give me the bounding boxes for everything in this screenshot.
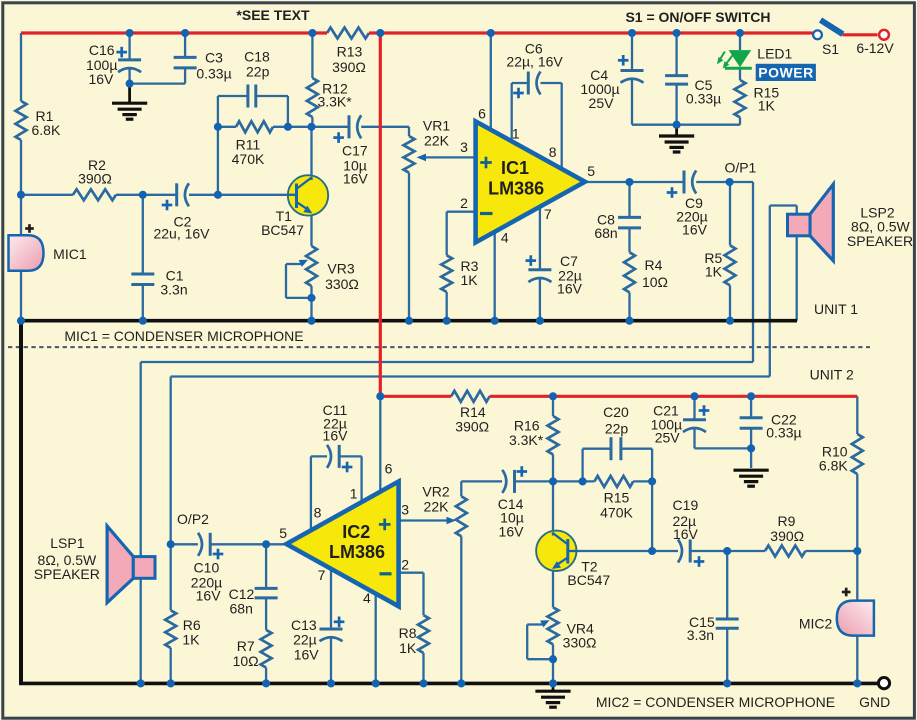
red supply rail unit2 left segment — [380, 395, 451, 398]
svg-text:1: 1 — [350, 486, 358, 502]
wire: R3 bottom to ground rail — [446, 292, 448, 321]
capacitor C15 3.3n — [716, 618, 739, 621]
wire: C22 bottom lead — [750, 428, 752, 448]
svg-text:VR1: VR1 — [423, 118, 450, 134]
capacitor C22 0.33u — [740, 416, 763, 419]
wire: C21 bottom lead — [693, 428, 695, 448]
wire: C20 right lead — [621, 448, 652, 450]
potentiometer VR1 22K body — [404, 136, 415, 173]
ground symbol under C16 — [128, 84, 131, 102]
wire: T2 emitter down to VR4 — [552, 568, 554, 607]
wire: C17 to VR1 corner — [361, 126, 409, 128]
wire: C2 to base node C — [189, 194, 218, 196]
wire: MIC2 top lead — [856, 551, 858, 602]
svg-text:UNIT 1: UNIT 1 — [814, 301, 858, 317]
wire: C18 right lead — [256, 95, 288, 97]
wire: R11 right to collector node — [273, 126, 312, 128]
svg-text:1K: 1K — [758, 97, 776, 113]
svg-text:16V: 16V — [682, 222, 708, 238]
svg-text:BC547: BC547 — [567, 572, 610, 588]
resistor R4 10ohm — [624, 252, 635, 292]
wire: C20 loop right vertical — [651, 449, 653, 482]
wire: VR3 bottom to junction — [310, 286, 312, 298]
wire: feedback node down to base node — [651, 481, 653, 551]
svg-text:O/P1: O/P1 — [724, 160, 756, 176]
wire: C6 to pin8 corner — [541, 82, 562, 84]
plus mark C9 — [667, 191, 678, 194]
wire: T2 base wire to base node — [571, 550, 653, 552]
svg-text:0.33µ: 0.33µ — [196, 66, 231, 82]
wire: IC2 pin1 up — [360, 456, 362, 502]
svg-text:470K: 470K — [600, 505, 633, 521]
svg-text:2: 2 — [401, 556, 409, 572]
svg-text:7: 7 — [318, 567, 326, 583]
wire: IC1 pin4 down to ground rail — [494, 232, 496, 321]
svg-text:22K: 22K — [424, 133, 450, 149]
plus mark inside IC1 — [480, 161, 492, 164]
wire: C9 to O/P1 node — [696, 181, 729, 183]
wire: LSP1 bottom to ground rail — [140, 575, 142, 683]
svg-text:1K: 1K — [705, 264, 723, 280]
svg-text:R4: R4 — [645, 257, 663, 273]
wire: C21 top lead from rail — [693, 396, 695, 420]
svg-text:LM386: LM386 — [488, 179, 544, 199]
svg-text:390Ω: 390Ω — [332, 59, 366, 75]
capacitor C17 10u — [348, 115, 351, 138]
wire: VR1 bottom to ground rail — [408, 173, 410, 321]
red supply rail top left segment — [21, 31, 327, 34]
wire: C3 bottom lead — [184, 68, 186, 84]
wire: R10 bottom to MIC2 node — [856, 474, 858, 551]
plus mark MIC1 — [25, 227, 34, 230]
svg-text:16V: 16V — [294, 646, 320, 662]
wire: C18 left lead — [218, 95, 248, 97]
resistor R12 3.3K — [307, 78, 318, 117]
svg-text:3: 3 — [460, 139, 468, 155]
junction dot C16-C3 ground node — [126, 80, 134, 88]
wire: feedback left vertical node C up to C18 — [217, 96, 219, 195]
wire: LED1 cathode to R15 — [739, 68, 741, 80]
svg-text:MIC2: MIC2 — [799, 615, 833, 631]
resistor R11 470K — [236, 121, 273, 132]
wire: pin2 corner down to R8 — [422, 573, 424, 616]
wire: VR4 junction to ground rail — [552, 659, 554, 682]
capacitor C14 10u — [513, 470, 516, 493]
wire: C5 top lead from rail — [675, 33, 677, 76]
wire: MIC1 bottom to ground rail — [20, 271, 22, 321]
wire: collector node to feedback R15-C20 — [553, 480, 594, 482]
ground symbol under VR4 on rail — [552, 683, 555, 690]
wire: LSP2 bottom to unit1 ground rail end — [796, 234, 798, 321]
junction dots R11 feedback — [214, 123, 222, 131]
svg-text:330Ω: 330Ω — [325, 276, 359, 292]
junction dots unit1 ground rail — [17, 317, 25, 325]
wire: left rail down from supply to R1 — [20, 33, 22, 101]
wire: R15 bottom lead — [739, 117, 741, 124]
op-amp IC1 LM386 body — [476, 121, 585, 242]
wire: R9 to MIC2 node — [805, 550, 857, 552]
svg-text:O/P2: O/P2 — [177, 511, 209, 527]
wire: C15 top lead — [726, 551, 728, 619]
wire: O/P2 node to C10 — [171, 543, 198, 545]
svg-text:C13: C13 — [291, 617, 317, 633]
POWER label box — [756, 64, 816, 81]
wire: IC2 pin6 from supply corner — [379, 396, 381, 491]
wire: C20 loop left vertical — [581, 449, 583, 482]
wire: R11 left lead — [218, 126, 236, 128]
wire: R5 bottom to ground rail — [729, 285, 731, 320]
wire: interconnect A horizontal crossover — [141, 361, 753, 363]
wire: C4 top lead from rail — [631, 33, 633, 71]
wire: LSP2 top terminal link — [770, 204, 797, 206]
svg-text:5: 5 — [279, 525, 287, 541]
left ground bus vertical — [19, 319, 23, 683]
capacitor C21 100u — [683, 418, 706, 421]
wire: C16 bottom lead to ground node — [128, 69, 130, 84]
wire: C10 to C12 node — [210, 543, 266, 545]
transistor T1 emitter stroke with arrow — [297, 202, 309, 210]
wire: C22 top lead from rail — [750, 396, 752, 418]
transistor T1 BC547 body — [288, 175, 328, 215]
svg-text:68n: 68n — [594, 225, 617, 241]
resistor R2 390ohm — [73, 189, 116, 200]
svg-text:3.3n: 3.3n — [687, 627, 714, 643]
capacitor C3 0.33u — [174, 56, 197, 59]
wire: R6 top lead from O/P2 node — [170, 544, 172, 610]
plus mark C14 — [517, 470, 528, 473]
resistor R16 3.3K — [548, 416, 559, 454]
capacitor C16 100u — [118, 58, 141, 61]
wire: C11 to pin8 corner — [311, 455, 327, 457]
wire: R15 470K right lead — [633, 480, 652, 482]
svg-text:0.33µ: 0.33µ — [686, 91, 721, 107]
wire: C12 bottom to R7 — [265, 598, 267, 630]
wire: feedback right vertical C18 to R11 level — [287, 96, 289, 127]
capacitor C7 22u — [528, 268, 551, 271]
svg-text:LM386: LM386 — [329, 542, 385, 562]
LED1 triangle — [729, 50, 752, 67]
junction dots unit2 ground rail — [137, 679, 145, 687]
potentiometer VR4 330ohm body — [548, 607, 559, 644]
op-amp IC2 LM386 body — [286, 482, 398, 607]
svg-text:22p: 22p — [246, 63, 270, 79]
wire: IC2 pin7 down to C13 — [330, 569, 332, 629]
svg-text:R8: R8 — [399, 625, 417, 641]
svg-text:10Ω: 10Ω — [642, 274, 668, 290]
svg-text:1: 1 — [512, 126, 520, 142]
wire: C19 to C15 node — [690, 550, 727, 552]
transistor T2 base lead inside — [568, 550, 577, 552]
transistor T2 BC547 body — [536, 531, 576, 571]
svg-text:R9: R9 — [778, 513, 796, 529]
svg-text:16V: 16V — [673, 526, 699, 542]
resistor R15 1K (LED) — [735, 80, 746, 117]
microphone MIC1 — [9, 235, 44, 271]
wire: IC2 pin3 to VR2 wiper — [399, 519, 449, 521]
wire: interconnect B down to O/P2 node — [170, 377, 172, 545]
wire: MIC2 bottom to ground rail — [856, 634, 858, 683]
svg-text:SPEAKER: SPEAKER — [34, 566, 100, 582]
wire: R10 top lead from rail corner — [856, 396, 858, 434]
plus mark C11 — [342, 466, 353, 469]
svg-text:16V: 16V — [343, 171, 369, 187]
svg-text:22µ, 16V: 22µ, 16V — [506, 54, 563, 70]
wire: C1 top lead — [142, 195, 144, 274]
plus mark C2 — [162, 204, 173, 207]
ground symbol under C22 — [734, 469, 769, 472]
ground symbol under C5 — [675, 125, 678, 135]
speaker LSP2 — [810, 184, 833, 261]
svg-text:POWER: POWER — [758, 64, 813, 80]
svg-text:C16: C16 — [89, 42, 115, 58]
svg-text:8: 8 — [549, 144, 557, 160]
capacitor C11 22u — [338, 445, 341, 468]
wire: T1 emitter down to VR3 — [310, 213, 312, 247]
svg-text:1K: 1K — [399, 640, 417, 656]
wire: VR2 top corner into zigzag — [460, 481, 462, 496]
LED1 cathode bar — [725, 67, 752, 70]
wire: C20 left lead — [583, 448, 611, 450]
svg-text:22µ: 22µ — [293, 632, 317, 648]
wire: C16 top lead from rail — [128, 33, 130, 60]
wire: C15 bottom to ground rail — [726, 628, 728, 683]
potentiometer VR4 wiper arrow — [527, 623, 542, 625]
svg-text:390Ω: 390Ω — [78, 170, 112, 186]
junction dot supply corner unit2 — [376, 392, 384, 400]
red supply rail unit2 right segment — [490, 395, 858, 398]
svg-text:R6: R6 — [183, 617, 201, 633]
wire: R6 bottom to ground rail — [170, 648, 172, 684]
junction dots T2 base row — [648, 547, 656, 555]
svg-text:6-12V: 6-12V — [856, 40, 894, 56]
svg-text:3.3K*: 3.3K* — [317, 94, 352, 110]
plus mark C13 — [334, 620, 345, 623]
svg-text:4: 4 — [501, 229, 509, 245]
unit2 ground rail — [19, 682, 878, 686]
plus mark C17 — [333, 136, 344, 139]
svg-text:LSP1: LSP1 — [50, 535, 84, 551]
svg-text:16V: 16V — [196, 588, 222, 604]
junction dots T2 collector row — [549, 477, 557, 485]
wire: pin1 to C11 — [339, 455, 361, 457]
svg-text:C17: C17 — [342, 143, 368, 159]
svg-text:390Ω: 390Ω — [455, 419, 489, 435]
capacitor C12 68n — [255, 587, 278, 590]
wire: base node C to T1 base — [218, 194, 293, 196]
plus mark C19 — [694, 560, 705, 563]
svg-text:SPEAKER: SPEAKER — [847, 233, 913, 249]
svg-text:16V: 16V — [499, 523, 525, 539]
wire: C1 bottom lead — [142, 285, 144, 321]
wire: IC1 pin2 left — [447, 211, 476, 213]
wire: C4-C5-R15 bottom link — [632, 124, 740, 126]
minus mark inside IC1 — [480, 212, 493, 215]
red vertical feed to unit2 — [379, 33, 382, 396]
svg-text:7: 7 — [544, 206, 552, 222]
wire: R8 bottom to ground rail — [422, 653, 424, 684]
svg-text:25V: 25V — [655, 430, 681, 446]
wire: R16 bottom to collector node — [552, 454, 554, 481]
svg-text:MIC1: MIC1 — [53, 246, 87, 262]
wire: R5 top lead from O/P1 — [729, 182, 731, 245]
svg-text:16V: 16V — [557, 281, 583, 297]
wire: IC2 pin2 right — [399, 572, 424, 574]
svg-text:470K: 470K — [232, 151, 265, 167]
resistor R9 390ohm — [765, 546, 805, 557]
wire: C12 top lead — [265, 544, 267, 588]
resistor R5 1K — [725, 245, 736, 285]
capacitor C13 22u — [320, 628, 343, 631]
svg-text:6: 6 — [478, 106, 486, 122]
svg-text:C20: C20 — [603, 404, 629, 420]
plus mark C10 — [213, 553, 224, 556]
svg-text:MIC2 = CONDENSER MICROPHONE: MIC2 = CONDENSER MICROPHONE — [596, 694, 835, 710]
wire: node B to C2 — [143, 194, 177, 196]
wire: R1 bottom to node A — [20, 140, 22, 195]
red supply rail top right segment — [369, 31, 813, 34]
svg-text:C10: C10 — [194, 560, 220, 576]
wire: interconnect B down from LSP2 — [769, 206, 771, 377]
svg-text:2: 2 — [460, 195, 468, 211]
svg-text:S1: S1 — [822, 41, 839, 57]
capacitor C6 22u — [527, 72, 530, 95]
plus mark inside IC2 — [379, 523, 391, 526]
GND terminal circle — [878, 678, 889, 689]
svg-text:R7: R7 — [237, 638, 255, 654]
svg-text:VR2: VR2 — [422, 483, 449, 499]
wire: pin1 to C6 — [512, 82, 529, 84]
resistor R3 1K — [441, 255, 452, 292]
transistor T2 base bar — [566, 539, 569, 564]
unit separator dashed line — [8, 346, 870, 348]
wire: O/P1 node to interconnect corner — [730, 181, 753, 183]
speaker LSP1 — [107, 526, 133, 603]
transistor T1 base bar — [295, 184, 298, 209]
svg-text:22u, 16V: 22u, 16V — [153, 226, 210, 242]
plus mark C6 — [513, 92, 524, 95]
wire: R2 to node B — [116, 194, 143, 196]
svg-text:C3: C3 — [205, 50, 223, 66]
svg-text:S1 = ON/OFF SWITCH: S1 = ON/OFF SWITCH — [625, 9, 770, 25]
plus mark C7 — [526, 259, 537, 262]
wire: node A to R2 — [21, 194, 73, 196]
wire: pin2 corner down to R3 — [446, 212, 448, 256]
wire: interconnect A down to LSP1 — [140, 362, 142, 560]
svg-text:8: 8 — [314, 505, 322, 521]
capacitor C10 220u — [209, 533, 212, 556]
svg-text:R15: R15 — [604, 490, 630, 506]
switch S1 lever — [821, 20, 843, 34]
svg-text:C12: C12 — [229, 586, 255, 602]
potentiometer VR2 wiper arrow — [447, 517, 457, 525]
wire: IC2 pin4 down to ground rail — [375, 594, 377, 684]
wire: collector node to C17 — [312, 126, 350, 128]
junction dot C4 C5 R15 node — [673, 121, 681, 129]
svg-text:UNIT 2: UNIT 2 — [810, 367, 854, 383]
wire: C22 node to ground symbol — [750, 448, 752, 468]
svg-text:GND: GND — [859, 694, 890, 710]
capacitor C9 220u — [683, 171, 686, 194]
resistor R10 6.8K — [852, 434, 863, 474]
wire: C14 to T2 collector node — [515, 480, 554, 482]
capacitor C2 22u — [175, 183, 178, 206]
LED1 emission arrows — [720, 52, 725, 61]
svg-text:R13: R13 — [337, 44, 363, 60]
resistor R13 390ohm — [327, 28, 369, 39]
wire: IC1 pin6 from rail — [490, 33, 492, 130]
svg-text:BC547: BC547 — [261, 222, 304, 238]
plus mark C21 — [699, 409, 710, 412]
wire: base node to C19 — [652, 550, 678, 552]
wire: C7 bottom to ground rail — [539, 278, 541, 321]
svg-text:10Ω: 10Ω — [233, 653, 259, 669]
junction dot C21-C22 ground node — [747, 444, 755, 452]
junction dots top rail — [126, 29, 134, 37]
wire: R16 top lead from rail — [552, 396, 554, 416]
plus mark C4 — [618, 59, 629, 62]
plus mark C16 — [116, 51, 127, 54]
svg-text:1K: 1K — [182, 632, 200, 648]
svg-text:IC2: IC2 — [342, 522, 370, 542]
wire: VR3 junction to ground rail — [310, 298, 312, 321]
potentiometer VR1 wiper arrow — [417, 154, 427, 162]
junction dots output row O/P1 — [625, 178, 633, 186]
svg-text:390Ω: 390Ω — [770, 528, 804, 544]
transistor T1 collector stroke — [297, 177, 312, 188]
svg-text:C19: C19 — [673, 497, 699, 513]
svg-text:1K: 1K — [460, 272, 478, 288]
svg-text:3.3n: 3.3n — [160, 282, 187, 298]
wire: pin8 vertical down to IC2 — [310, 456, 312, 530]
wire: R12 bottom to collector node — [311, 117, 313, 127]
plus mark MIC2 — [842, 591, 851, 594]
junction dots unit2 supply rail — [549, 392, 557, 400]
wire: R7 bottom to ground rail — [265, 668, 267, 684]
wire: interconnect A down from O/P1 — [752, 182, 754, 362]
transistor T1 base lead inside — [288, 194, 297, 196]
svg-text:25V: 25V — [589, 95, 615, 111]
potentiometer VR3 330ohm body — [306, 246, 317, 286]
resistor R1 6.8K — [16, 101, 27, 140]
resistor R6 1K — [165, 610, 176, 648]
supply terminal 6-12V circle — [879, 30, 889, 40]
wire: C8 bottom to R4 — [628, 228, 630, 252]
svg-text:3.3K*: 3.3K* — [509, 432, 544, 448]
wire: IC1 pin5 output to C9 — [585, 181, 684, 183]
wire: T2 collector vertical — [552, 481, 554, 533]
transistor T2 emitter stroke with arrow — [556, 558, 568, 566]
wire: C12 node to IC2 pin5 — [266, 543, 286, 545]
svg-text:MIC1 = CONDENSER MICROPHONE: MIC1 = CONDENSER MICROPHONE — [64, 328, 303, 344]
unit1 ground rail — [21, 319, 797, 323]
transistor T2 collector stroke — [552, 533, 567, 544]
wire: C13 bottom to ground rail — [330, 638, 332, 684]
svg-text:IC1: IC1 — [501, 158, 529, 178]
minus mark inside IC2 — [380, 572, 392, 575]
svg-text:*SEE TEXT: *SEE TEXT — [236, 7, 310, 23]
svg-text:16V: 16V — [88, 71, 114, 87]
switch S1 contact circle — [813, 30, 822, 39]
wire: C21 bottom link to C22 node — [695, 447, 752, 449]
capacitor C8 68n — [618, 216, 641, 219]
capacitor C4 1000u — [621, 69, 644, 72]
wire: VR4 wiper leg vertical — [526, 625, 528, 660]
potentiometer VR3 wiper arrow — [286, 263, 301, 265]
microphone MIC2 — [837, 601, 874, 636]
wire: IC1 pin1 up — [511, 83, 513, 142]
wire: VR2 top to C14 — [461, 480, 502, 482]
capacitor C5 0.33u — [665, 74, 688, 77]
